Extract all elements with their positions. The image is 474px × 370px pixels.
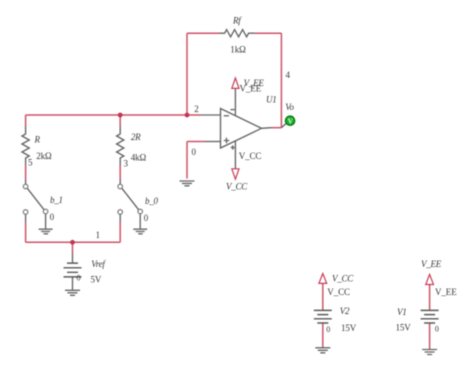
svg-text:Vo: Vo [285,102,294,112]
svg-text:0: 0 [77,274,81,283]
svg-text:V_EE: V_EE [244,78,265,88]
svg-text:5: 5 [28,157,33,167]
svg-text:1kΩ: 1kΩ [230,44,246,54]
svg-text:0: 0 [144,213,149,223]
svg-text:2kΩ: 2kΩ [36,151,52,161]
svg-text:4kΩ: 4kΩ [131,152,147,162]
svg-text:V_CC: V_CC [226,182,248,192]
svg-text:15V: 15V [341,323,357,333]
svg-text:V1: V1 [397,307,407,317]
svg-text:V_EE: V_EE [435,287,457,297]
svg-text:Vref: Vref [91,259,106,269]
svg-text:R: R [34,134,41,144]
svg-text:Rf: Rf [232,15,242,25]
svg-text:0: 0 [326,325,330,334]
svg-text:2: 2 [194,104,199,114]
svg-text:4: 4 [286,70,291,80]
svg-text:V_CC: V_CC [332,274,354,284]
svg-text:b_1: b_1 [50,195,63,205]
svg-text:V_CC: V_CC [239,151,262,161]
svg-text:V2: V2 [340,306,350,316]
svg-text:0: 0 [192,147,197,157]
svg-text:V: V [288,117,293,125]
svg-text:5V: 5V [91,274,102,284]
svg-text:V_CC: V_CC [327,287,350,297]
svg-text:0: 0 [50,212,55,222]
svg-text:3: 3 [124,158,129,168]
svg-text:2R: 2R [131,132,141,142]
svg-text:U1: U1 [266,94,277,104]
svg-text:V_EE: V_EE [421,259,442,269]
svg-text:b_0: b_0 [145,196,159,206]
svg-text:15V: 15V [396,323,412,333]
svg-text:0: 0 [435,325,439,334]
svg-text:1: 1 [96,230,101,240]
